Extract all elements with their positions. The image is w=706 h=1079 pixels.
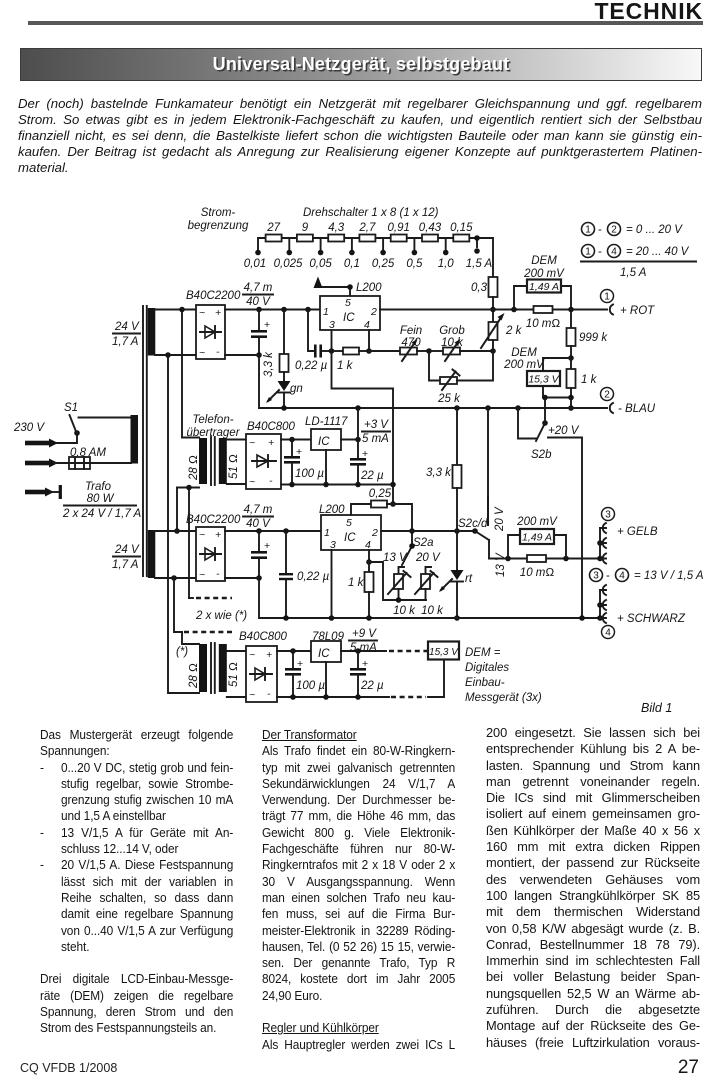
svg-text:- BLAU: - BLAU — [618, 403, 656, 415]
svg-text:Strom-: Strom- — [201, 207, 236, 219]
svg-text:~: ~ — [249, 649, 255, 661]
svg-text:DEM: DEM — [531, 255, 557, 267]
wire bridge B3 minus to 0V rail — [225, 578, 600, 618]
wire U1 pin3 — [331, 330, 333, 351]
svg-text:0,43: 0,43 — [419, 222, 442, 234]
svg-text:0,1: 0,1 — [344, 258, 360, 270]
terminal 4 +SCHWARZ — [579, 585, 686, 639]
label Trafo 80W 2x24V/1,7A — [62, 481, 142, 520]
node 999k/1k — [568, 355, 574, 361]
wire aux2 bottom rail — [277, 694, 426, 700]
svg-text:4: 4 — [365, 539, 371, 551]
svg-text:80 W: 80 W — [87, 493, 115, 505]
svg-text:1 k: 1 k — [337, 360, 354, 372]
svg-text:-: - — [216, 346, 220, 358]
svg-text:13 V: 13 V — [383, 552, 408, 564]
resistor 1k (divider) — [567, 358, 598, 411]
svg-text:200 mV: 200 mV — [516, 516, 558, 528]
potentiometer 10k (13V) — [388, 571, 416, 617]
switch S2c/d — [458, 518, 507, 577]
terminal 3 +GELB — [597, 508, 658, 564]
wire U2 pin4 — [366, 550, 372, 565]
wire pin3 node down to stack line — [332, 351, 394, 389]
svg-text:230 V: 230 V — [13, 422, 45, 434]
label 24V/1,7A a — [112, 321, 140, 348]
transformer TR2 secondary 51 Ohm — [219, 438, 240, 484]
svg-text:~: ~ — [199, 307, 205, 319]
capacitor C5 0,22u — [279, 528, 330, 621]
wire U1 pin4 — [368, 330, 370, 351]
svg-text:= 20 ... 40 V: = 20 ... 40 V — [626, 246, 690, 258]
svg-text:10 k: 10 k — [421, 605, 444, 617]
node pin3 junction — [329, 348, 335, 354]
svg-text:2: 2 — [370, 306, 377, 318]
regulator U4 78L09 — [277, 631, 386, 697]
svg-text:-: - — [598, 224, 602, 236]
svg-text:Digitales: Digitales — [465, 662, 509, 674]
svg-text:0,5: 0,5 — [406, 258, 423, 270]
wire output rail +20V — [380, 309, 607, 311]
resistor 999k — [567, 310, 609, 359]
svg-text:1: 1 — [585, 225, 591, 236]
resistor 3,3k (gn branch) — [263, 307, 289, 381]
svg-text:-: - — [267, 688, 271, 700]
resistor 0,43 — [419, 222, 442, 242]
switch contact 1,0 — [438, 238, 455, 270]
svg-text:9: 9 — [302, 222, 309, 234]
transformer TR1 secondary winding b (24V) — [148, 530, 156, 578]
svg-text:5 mA: 5 mA — [362, 433, 389, 445]
bridge rectifier B2 B40C800 — [227, 421, 296, 489]
transformer TR1 secondary winding a (24V) — [148, 308, 156, 356]
svg-text:25 k: 25 k — [437, 393, 461, 405]
svg-text:1,49 A: 1,49 A — [522, 532, 552, 544]
resistor 4,3 — [328, 222, 345, 242]
svg-text:0,025: 0,025 — [274, 258, 303, 270]
svg-text:0,91: 0,91 — [388, 222, 410, 234]
legend 1-2 voltages — [582, 223, 684, 237]
svg-text:5 mA: 5 mA — [350, 642, 377, 654]
svg-text:Bild 1: Bild 1 — [641, 701, 672, 715]
label +3V 5mA — [362, 419, 390, 445]
svg-text:100 µ: 100 µ — [296, 680, 325, 692]
svg-text:Drehschalter 1 x 8 (1 x 12): Drehschalter 1 x 8 (1 x 12) — [303, 207, 439, 219]
terminal 2 -BLAU — [601, 388, 656, 416]
svg-text:51 Ω: 51 Ω — [228, 662, 240, 687]
svg-text:Telefon-: Telefon- — [192, 414, 233, 426]
wire stack line pin3node-aux-0,25 — [390, 389, 396, 507]
legend 1-4 voltages — [581, 245, 696, 280]
shunt resistor 10mOhm (lower) — [520, 555, 555, 579]
svg-text:+ SCHWARZ: + SCHWARZ — [617, 613, 686, 625]
svg-text:3: 3 — [593, 571, 599, 582]
svg-text:DEM: DEM — [511, 347, 537, 359]
svg-text:DEM =: DEM = — [465, 647, 501, 659]
svg-text:2: 2 — [611, 225, 617, 236]
wire bridge B3 + output — [225, 530, 321, 532]
svg-text:1: 1 — [604, 292, 610, 303]
switch S2a — [383, 537, 441, 574]
svg-text:13 V: 13 V — [495, 552, 507, 577]
svg-text:4,7 m: 4,7 m — [244, 504, 273, 516]
mains earth stub — [25, 485, 62, 499]
svg-text:0,15: 0,15 — [450, 222, 473, 234]
wire aux1 +3V tie to rail — [355, 405, 361, 439]
svg-text:24 V: 24 V — [114, 321, 140, 333]
svg-text:40 V: 40 V — [246, 296, 271, 308]
svg-text:200 mV: 200 mV — [523, 268, 565, 280]
svg-text:+: + — [266, 649, 272, 661]
capacitor C1 4,7m/40V — [243, 282, 273, 408]
label Strombegrenzung — [188, 207, 249, 232]
svg-text:5: 5 — [346, 517, 352, 529]
svg-text:1: 1 — [323, 306, 329, 318]
node Fein/Grob junction — [426, 348, 432, 354]
svg-text:1,7 A: 1,7 A — [112, 559, 139, 571]
bridge rectifier B3 B40C2200 — [186, 514, 241, 581]
svg-text:24 V: 24 V — [114, 544, 140, 556]
svg-text:S1: S1 — [64, 402, 78, 414]
svg-text:3,3 k: 3,3 k — [426, 467, 452, 479]
potentiometer 10k (20V) — [415, 571, 444, 617]
svg-text:40 V: 40 V — [246, 518, 271, 530]
label DEM explanation — [465, 647, 542, 704]
wire duplicate marker 1 — [189, 597, 232, 599]
svg-text:Grob: Grob — [439, 325, 465, 337]
svg-text:+: + — [264, 319, 270, 331]
svg-text:1,0: 1,0 — [438, 258, 455, 270]
svg-text:IC: IC — [318, 648, 330, 660]
potentiometer 2k — [481, 310, 523, 352]
svg-text:0,01: 0,01 — [244, 258, 266, 270]
svg-text:1,49 A: 1,49 A — [529, 281, 559, 293]
bridge rectifier B4 B40C800 — [227, 631, 288, 702]
switch contact 0,025 — [274, 238, 303, 270]
svg-text:+: + — [215, 529, 221, 541]
svg-text:2: 2 — [371, 527, 378, 539]
svg-text:1: 1 — [585, 247, 591, 258]
svg-text:4: 4 — [605, 628, 611, 639]
svg-text:IC: IC — [343, 312, 355, 324]
resistor 2,7 — [358, 222, 376, 242]
svg-text:2 x wie (*): 2 x wie (*) — [195, 610, 247, 622]
bridge rectifier B1 B40C2200 — [186, 290, 241, 359]
svg-text:20 V: 20 V — [415, 552, 441, 564]
capacitor 100u (aux1) — [284, 437, 324, 485]
svg-text:5: 5 — [345, 297, 351, 309]
svg-text:1,7 A: 1,7 A — [112, 336, 139, 348]
svg-text:~: ~ — [199, 347, 205, 359]
wire duplicate marker 2 — [174, 578, 232, 632]
svg-text:10 mΩ: 10 mΩ — [526, 318, 561, 330]
regulator U3 LD-1117 — [281, 416, 358, 485]
svg-text:-: - — [606, 570, 610, 582]
resistor 27 — [266, 222, 282, 242]
svg-text:Einbau-: Einbau- — [465, 677, 505, 689]
svg-text:Fein: Fein — [400, 325, 422, 337]
label Telefonuebertrager — [186, 414, 240, 439]
svg-text:0,3: 0,3 — [471, 282, 488, 294]
svg-text:S2a: S2a — [413, 537, 433, 549]
resistor 0,91 — [388, 222, 410, 242]
node gn LED on rail — [281, 405, 287, 411]
svg-text:~: ~ — [249, 437, 255, 449]
capacitor 100u (aux2) — [285, 648, 325, 697]
switch contact 1,5 A — [466, 235, 493, 270]
label 24V/1,7A b — [112, 544, 140, 571]
voltmeter DEM4 15,3V — [428, 642, 459, 698]
svg-text:20 V: 20 V — [494, 506, 506, 532]
svg-text:S2c/d: S2c/d — [458, 518, 488, 530]
op-amp regulator U2 L200 — [319, 504, 381, 551]
resistor 1k (pin3-pin4) — [332, 348, 370, 373]
svg-text:= 0 ... 20 V: = 0 ... 20 V — [626, 224, 683, 236]
svg-text:4,7 m: 4,7 m — [244, 282, 273, 294]
svg-text:2,7: 2,7 — [358, 222, 376, 234]
svg-text:4: 4 — [619, 571, 625, 582]
svg-text:begrenzung: begrenzung — [188, 220, 249, 232]
svg-text:2: 2 — [604, 390, 610, 401]
transformer TR3 secondary 51 Ohm — [219, 644, 240, 692]
svg-text:= 13 V / 1,5 A: = 13 V / 1,5 A — [634, 570, 704, 582]
svg-text:(*): (*) — [176, 646, 188, 658]
node pin4 junction — [366, 348, 372, 354]
transformer TR3 core — [211, 643, 215, 693]
svg-text:~: ~ — [249, 476, 255, 488]
svg-text:200 mV: 200 mV — [503, 359, 545, 371]
svg-text:B40C800: B40C800 — [239, 631, 288, 643]
switch contact 0,5 — [406, 238, 423, 270]
svg-text:B40C800: B40C800 — [247, 421, 296, 433]
svg-text:1 k: 1 k — [581, 374, 598, 386]
wire 13/20V to output — [489, 556, 600, 562]
svg-text:3,3 k: 3,3 k — [263, 351, 275, 377]
resistor 1k (U2 pin4) — [348, 562, 374, 621]
svg-text:IC: IC — [318, 436, 330, 448]
svg-text:+ ROT: + ROT — [620, 305, 655, 317]
wire aux1 bottom rail — [281, 482, 393, 488]
svg-text:0,22 µ: 0,22 µ — [297, 571, 330, 583]
wire U2 pin3 to 0V rail — [329, 550, 335, 621]
wire feed to telephone transformer primary — [165, 307, 199, 693]
svg-text:22 µ: 22 µ — [360, 680, 384, 692]
ammeter DEM3 1,49A — [508, 516, 566, 559]
svg-text:0,25: 0,25 — [369, 488, 392, 500]
svg-text:15,3 V: 15,3 V — [429, 647, 459, 658]
wire bridge B1 + output rail — [225, 309, 320, 311]
voltmeter DEM2 15,3V — [503, 347, 571, 398]
svg-text:~: ~ — [199, 569, 205, 581]
svg-text:2 x 24 V / 1,7 A: 2 x 24 V / 1,7 A — [62, 508, 142, 520]
svg-text:S2b: S2b — [531, 449, 552, 461]
switch contact 0,01 — [244, 250, 266, 270]
svg-text:0,22 µ: 0,22 µ — [295, 360, 328, 372]
node bridge B1 minus — [225, 354, 259, 356]
svg-text:B40C2200: B40C2200 — [186, 290, 241, 302]
svg-text:~: ~ — [199, 529, 205, 541]
svg-text:Trafo: Trafo — [85, 481, 112, 493]
svg-text:4: 4 — [611, 247, 617, 258]
capacitor C2 0,22u — [295, 307, 332, 372]
svg-text:1,5 A: 1,5 A — [620, 267, 647, 279]
switch contact 0,1 — [344, 238, 360, 270]
svg-text:+3 V: +3 V — [364, 419, 389, 431]
svg-text:3: 3 — [605, 510, 611, 521]
svg-text:+: + — [268, 437, 274, 449]
potentiometer Fein 470 — [369, 325, 429, 361]
svg-text:LD-1117: LD-1117 — [305, 416, 348, 428]
svg-text:15,3 V: 15,3 V — [528, 374, 559, 386]
transformer TR2 telephone: primary 28 Ohm — [188, 438, 207, 484]
svg-text:~: ~ — [249, 689, 255, 701]
svg-text:0,25: 0,25 — [372, 258, 395, 270]
svg-text:999 k: 999 k — [579, 332, 608, 344]
svg-text:100 µ: 100 µ — [295, 468, 324, 480]
svg-text:übertrager: übertrager — [186, 427, 240, 439]
node 2k junction — [490, 348, 496, 354]
svg-text:-: - — [269, 475, 273, 487]
svg-text:-: - — [598, 246, 602, 258]
svg-text:10 k: 10 k — [393, 605, 416, 617]
wire 20V contact feed (from BLAU rail) — [485, 405, 506, 532]
svg-text:Messgerät (3x): Messgerät (3x) — [465, 692, 542, 704]
mains switch S1 — [25, 402, 131, 448]
capacitor 22u (aux2) — [350, 648, 384, 697]
svg-text:1,5 A: 1,5 A — [466, 258, 493, 270]
wire current-limit chain — [258, 238, 493, 277]
legend 3-4 voltage — [590, 569, 704, 583]
wire 0V rail (BLAU) — [259, 407, 607, 409]
wire aux1 tie down via 3,3k line — [454, 405, 460, 465]
svg-text:2 k: 2 k — [505, 325, 523, 337]
svg-text:rt: rt — [465, 573, 473, 585]
svg-text:28 Ω: 28 Ω — [188, 663, 200, 689]
capacitor C4 4,7m/40V — [243, 504, 273, 581]
fuse 0,8AM — [25, 447, 131, 469]
svg-text:gn: gn — [290, 383, 303, 395]
svg-text:51 Ω: 51 Ω — [228, 454, 240, 479]
wire dashed to DEM4 — [389, 650, 427, 653]
resistor 0,25 (sense) — [351, 488, 415, 546]
transformer TR2 core — [211, 437, 215, 485]
transformer TR1 primary winding — [131, 415, 139, 464]
svg-text:B40C2200: B40C2200 — [186, 514, 241, 526]
label +9V 5mA — [349, 628, 377, 654]
svg-text:L200: L200 — [356, 282, 382, 294]
potentiometer 25k — [429, 351, 493, 405]
svg-text:22 µ: 22 µ — [360, 470, 384, 482]
svg-text:1 k: 1 k — [348, 577, 365, 589]
LED rt — [439, 528, 473, 621]
resistor 0,15 — [450, 222, 473, 242]
wire U2 pin2 output rail 13V — [381, 530, 475, 532]
capacitor 22u (aux1) — [350, 437, 384, 485]
svg-text:1: 1 — [324, 527, 330, 539]
ammeter DEM1 1,49A — [511, 255, 574, 312]
switch contact 0,25 — [372, 238, 395, 270]
wire TR2 primary bottom return — [174, 485, 199, 598]
svg-text:0,05: 0,05 — [309, 258, 332, 270]
wire secondary-b to bridge B3 — [155, 531, 196, 581]
svg-text:+9 V: +9 V — [352, 628, 377, 640]
LED gn — [266, 381, 303, 408]
svg-text:+20 V: +20 V — [548, 425, 580, 437]
transformer TR3 primary 28 Ohm — [176, 644, 207, 692]
shunt resistor 10mOhm — [526, 306, 561, 330]
resistor 9 — [297, 222, 313, 242]
svg-text:10 mΩ: 10 mΩ — [520, 567, 555, 579]
svg-text:27: 27 — [266, 222, 280, 234]
switch S2b — [515, 395, 582, 618]
svg-text:IC: IC — [344, 532, 356, 544]
wire feed to TR3 primary — [182, 632, 199, 644]
node rail/0,3 — [490, 307, 496, 313]
resistor 0,3 — [471, 277, 498, 310]
resistor 3,3k (lower) — [426, 465, 462, 531]
switch contact 0,05 — [309, 238, 332, 270]
transformer TR1 core — [143, 306, 147, 576]
wire secondary-a to bridge B1 — [155, 310, 196, 356]
op-amp regulator U1 L200 — [314, 277, 383, 332]
svg-text:+: + — [264, 540, 270, 552]
svg-text:-: - — [216, 568, 220, 580]
svg-text:28 Ω: 28 Ω — [188, 455, 200, 481]
terminal 1 +ROT — [601, 290, 656, 318]
potentiometer Grob 10k — [429, 325, 493, 361]
svg-text:+: + — [215, 307, 221, 319]
wire pot return loop — [369, 562, 426, 603]
svg-text:+ GELB: + GELB — [617, 526, 658, 538]
svg-text:4,3: 4,3 — [328, 222, 345, 234]
